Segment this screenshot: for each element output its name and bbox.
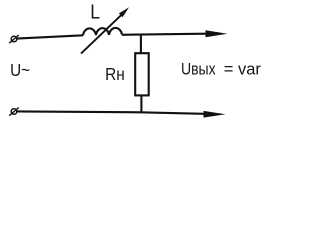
variable-adjustment arrow through L bbox=[81, 7, 129, 53]
svg-text:= var: = var bbox=[224, 59, 262, 78]
stub from resistor to bottom wire bbox=[140, 95, 142, 113]
svg-text:U~: U~ bbox=[10, 60, 30, 80]
svg-text:L: L bbox=[90, 0, 100, 22]
terminal (input top) bbox=[9, 35, 19, 43]
wire top-right bbox=[122, 34, 207, 35]
wire top-left bbox=[17, 35, 83, 38]
svg-text:Uвых: Uвых bbox=[181, 60, 216, 78]
arrowhead output bottom bbox=[204, 111, 226, 118]
inductor L coil bbox=[83, 28, 122, 36]
stub from top wire to resistor bbox=[140, 35, 142, 55]
wire bottom bbox=[17, 111, 204, 113]
terminal (input bottom) bbox=[9, 108, 19, 116]
svg-text:Rн: Rн bbox=[105, 64, 125, 84]
resistor Rn bbox=[135, 53, 149, 95]
arrowhead output top bbox=[206, 30, 228, 37]
